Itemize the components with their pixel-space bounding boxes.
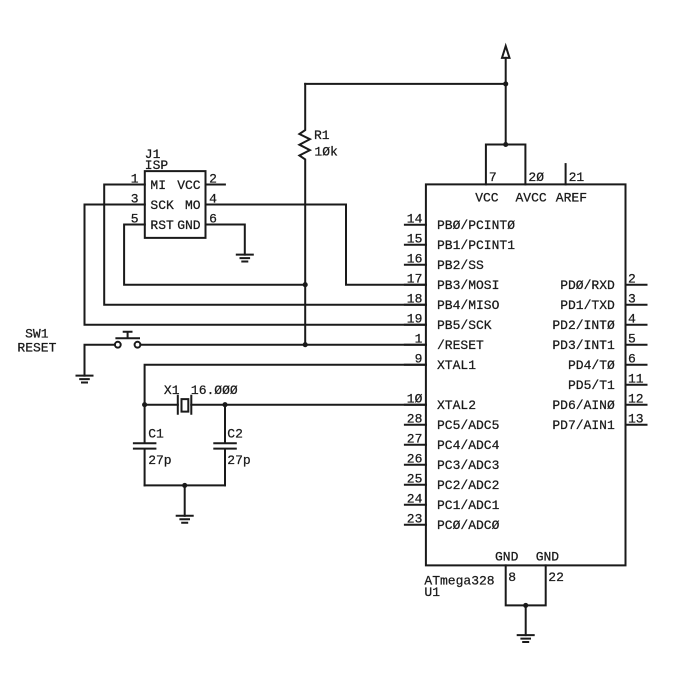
svg-text:PC3/ADC3: PC3/ADC3: [437, 458, 499, 473]
svg-text:14: 14: [407, 212, 423, 227]
svg-text:MO: MO: [185, 198, 201, 213]
svg-text:8: 8: [508, 570, 516, 585]
svg-text:11: 11: [628, 372, 644, 387]
svg-text:R1: R1: [314, 128, 330, 143]
svg-text:6: 6: [209, 212, 217, 227]
svg-text:PCØ/ADCØ: PCØ/ADCØ: [437, 518, 500, 533]
svg-text:RESET: RESET: [17, 341, 56, 356]
svg-text:PD3/INT1: PD3/INT1: [552, 338, 615, 353]
svg-text:MI: MI: [150, 178, 166, 193]
svg-text:24: 24: [407, 492, 423, 507]
svg-text:2: 2: [209, 172, 217, 187]
svg-text:6: 6: [628, 352, 636, 367]
svg-text:ISP: ISP: [145, 158, 169, 173]
svg-text:PC2/ADC2: PC2/ADC2: [437, 478, 499, 493]
svg-text:PB2/SS: PB2/SS: [437, 258, 484, 273]
svg-text:28: 28: [407, 412, 423, 427]
svg-text:PD5/T1: PD5/T1: [568, 378, 615, 393]
svg-text:C2: C2: [227, 427, 243, 442]
svg-text:4: 4: [628, 312, 636, 327]
svg-text:16: 16: [407, 252, 423, 267]
svg-text:PDØ/RXD: PDØ/RXD: [560, 278, 615, 293]
svg-text:3: 3: [131, 192, 139, 207]
svg-text:GND: GND: [495, 549, 519, 564]
svg-text:7: 7: [489, 170, 497, 185]
svg-text:/RESET: /RESET: [437, 338, 484, 353]
svg-text:VCC: VCC: [177, 178, 201, 193]
svg-text:PB5/SCK: PB5/SCK: [437, 318, 492, 333]
svg-text:XTAL1: XTAL1: [437, 358, 476, 373]
svg-text:GND: GND: [177, 218, 201, 233]
svg-text:27p: 27p: [227, 453, 250, 468]
svg-text:SW1: SW1: [25, 327, 49, 342]
svg-text:PC4/ADC4: PC4/ADC4: [437, 438, 500, 453]
svg-text:RST: RST: [150, 218, 174, 233]
svg-text:18: 18: [407, 292, 423, 307]
svg-text:PD6/AINØ: PD6/AINØ: [552, 398, 615, 413]
svg-text:9: 9: [415, 352, 423, 367]
svg-text:3: 3: [628, 292, 636, 307]
svg-text:15: 15: [407, 232, 423, 247]
svg-text:1Ø: 1Ø: [407, 392, 423, 407]
svg-text:21: 21: [569, 170, 585, 185]
svg-text:5: 5: [131, 212, 139, 227]
svg-text:AVCC: AVCC: [516, 191, 547, 206]
svg-text:PBØ/PCINTØ: PBØ/PCINTØ: [437, 218, 515, 233]
svg-text:16.ØØØ: 16.ØØØ: [191, 383, 238, 398]
svg-text:PB1/PCINT1: PB1/PCINT1: [437, 238, 515, 253]
svg-text:1Øk: 1Øk: [314, 145, 338, 160]
svg-text:23: 23: [407, 512, 423, 527]
svg-text:PC5/ADC5: PC5/ADC5: [437, 418, 499, 433]
svg-text:PB4/MISO: PB4/MISO: [437, 298, 500, 313]
svg-text:C1: C1: [148, 427, 164, 442]
svg-text:GND: GND: [536, 549, 560, 564]
svg-text:26: 26: [407, 452, 423, 467]
svg-text:27p: 27p: [148, 453, 171, 468]
svg-text:PD7/AIN1: PD7/AIN1: [552, 418, 615, 433]
svg-text:X1: X1: [164, 383, 180, 398]
svg-text:2: 2: [628, 272, 636, 287]
svg-text:PB3/MOSI: PB3/MOSI: [437, 278, 499, 293]
svg-text:12: 12: [628, 392, 644, 407]
svg-text:PD4/TØ: PD4/TØ: [568, 358, 615, 373]
svg-text:27: 27: [407, 432, 423, 447]
svg-text:1: 1: [131, 172, 139, 187]
svg-text:AREF: AREF: [556, 191, 587, 206]
svg-text:VCC: VCC: [475, 191, 499, 206]
svg-text:19: 19: [407, 312, 423, 327]
svg-text:1: 1: [415, 332, 423, 347]
svg-text:U1: U1: [424, 585, 440, 600]
svg-text:PC1/ADC1: PC1/ADC1: [437, 498, 500, 513]
svg-text:4: 4: [209, 192, 217, 207]
svg-text:22: 22: [548, 570, 564, 585]
svg-text:PD2/INTØ: PD2/INTØ: [552, 318, 615, 333]
svg-text:XTAL2: XTAL2: [437, 398, 476, 413]
svg-text:17: 17: [407, 272, 423, 287]
svg-text:PD1/TXD: PD1/TXD: [560, 298, 615, 313]
svg-text:25: 25: [407, 472, 423, 487]
svg-text:2Ø: 2Ø: [528, 170, 544, 185]
svg-text:5: 5: [628, 332, 636, 347]
svg-text:SCK: SCK: [150, 198, 174, 213]
svg-text:13: 13: [628, 412, 644, 427]
